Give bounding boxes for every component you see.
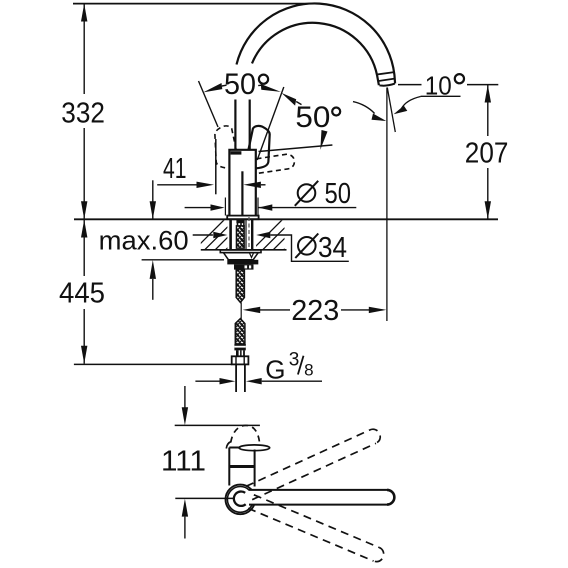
svg-text:50: 50 [325, 178, 352, 210]
lever base dark bar [231, 151, 242, 154]
207 top extent line [398, 84, 422, 86]
locknut lower [234, 264, 254, 269]
50-degree left arrow [203, 83, 222, 92]
degree circle (upper 50) [259, 75, 268, 84]
41 dimension left arrow [157, 184, 198, 186]
body lower collar lines [224, 198, 226, 216]
water stream vertical line [386, 88, 388, 322]
shank left wall [229, 220, 232, 250]
50-degree-2 down arrow [320, 130, 327, 150]
dimension line 332/445 vertical [83, 4, 85, 364]
50-degree left extension line [199, 81, 219, 127]
diameter 50 arrows [185, 207, 213, 209]
111 bottom extent line [175, 497, 233, 499]
plan spout solid tube [249, 490, 394, 505]
degree circle (10) [455, 74, 464, 83]
spout aerator band line 1 [378, 72, 395, 74]
10-degree leader underline [421, 95, 461, 97]
hose collar [236, 350, 245, 356]
connection nut G3/8 [232, 356, 249, 364]
arrow up (332 top) [81, 4, 87, 22]
10-degree right arc and arrow [402, 97, 421, 109]
svg-text:G: G [265, 354, 285, 384]
lever up-position lines [234, 100, 236, 151]
svg-text:41: 41 [163, 153, 187, 185]
diameter 34 arrows [193, 234, 213, 236]
plan lever dashed arch [231, 425, 260, 446]
plan lever disc ellipse [239, 445, 270, 451]
svg-text:50: 50 [295, 101, 330, 134]
spout outer arc [237, 3, 396, 83]
svg-text:332: 332 [61, 97, 105, 129]
plan body thick band [229, 465, 254, 468]
shank right wall [251, 220, 253, 250]
G 3/8 dimension arrows [195, 380, 221, 382]
shank centre dashed line [248, 217, 250, 252]
counter hatching right [250, 218, 316, 252]
mounting cone trapezoid [224, 253, 259, 260]
body centre line [241, 171, 243, 215]
water stream tilted line [387, 88, 395, 133]
spout tip bottom [379, 84, 395, 86]
counter hatching left [192, 218, 258, 252]
plan spout dashed lower [248, 495, 386, 564]
arrow down (332 bottom) [81, 201, 87, 219]
111 dimension arrows [184, 386, 186, 408]
plan body right edge [254, 450, 256, 487]
counter slab bottom line [201, 249, 287, 251]
plan second circle [227, 487, 253, 513]
spout aerator band line 2 [379, 79, 395, 81]
arrow down (445 bottom) [81, 346, 87, 364]
diameter 50 leader line [258, 207, 356, 209]
lever tilted right (solid) [248, 126, 269, 168]
plan inner C circle [234, 491, 246, 505]
arrow up (445 top) [81, 220, 87, 238]
label D34 [298, 237, 316, 255]
plan spout dashed upper [246, 427, 383, 500]
svg-text:3: 3 [289, 349, 300, 370]
degree circle (second 50) [332, 108, 340, 116]
50-degree right bowtie arrow [261, 84, 281, 92]
diameter 34 leader [270, 235, 349, 261]
max.60 dimension arrows [152, 180, 154, 219]
445 bottom extent line [74, 363, 232, 365]
svg-text:50: 50 [224, 68, 256, 101]
plan body top edge [229, 447, 240, 449]
connection tube [235, 364, 237, 392]
svg-text:111: 111 [161, 445, 206, 477]
svg-text:8: 8 [304, 361, 313, 380]
locknut upper [227, 260, 258, 265]
svg-text:207: 207 [465, 137, 509, 169]
lever horizontal (dashed) [257, 154, 295, 173]
svg-text:445: 445 [59, 278, 105, 310]
countertop line [74, 218, 498, 220]
207 dimension line [487, 85, 489, 136]
spout inner arc [252, 23, 379, 85]
plan body left edge [228, 448, 230, 486]
41 left extension line [215, 139, 217, 194]
111 top extent line [175, 424, 260, 426]
hose braid segment B [235, 319, 245, 344]
max.60 lower extent line [142, 259, 224, 261]
shank inner line [245, 220, 247, 250]
svg-text:34: 34 [318, 232, 347, 264]
223 dimension line right part [341, 309, 370, 311]
lever tilted left (dashed) [215, 126, 236, 168]
label D50 [298, 184, 316, 202]
base plate [227, 216, 258, 220]
plan outer circle [226, 485, 256, 515]
plan lever solid sliver [226, 441, 231, 448]
top extent line (332 upper reference) [73, 3, 313, 5]
svg-text:223: 223 [291, 295, 339, 327]
hose thin line between breaks [240, 302, 242, 320]
washer below counter [220, 250, 261, 253]
svg-text:max.60: max.60 [99, 225, 189, 255]
41 dimension right arrow [243, 182, 261, 188]
hose ferrule [234, 344, 245, 350]
10-degree left arc and arrow [353, 102, 375, 114]
50-degree-2 extension line [259, 145, 333, 152]
hose braid segment A [236, 270, 244, 303]
223 dimension line [243, 307, 261, 313]
faucet body outline [229, 150, 255, 216]
hose inside shank: fitting bars [236, 220, 244, 223]
hose braid inside shank [236, 226, 244, 248]
50-degree right extension line [257, 87, 284, 160]
